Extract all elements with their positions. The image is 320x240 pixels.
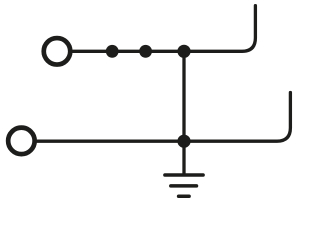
junction node (upper) bbox=[177, 45, 190, 58]
wire: vertical connector between upper and lower rails bbox=[182, 51, 185, 141]
ground bar 1 (top, widest) bbox=[165, 173, 203, 177]
contact dot 2 on upper wire bbox=[139, 45, 152, 58]
terminal circle (lower left) bbox=[8, 128, 35, 155]
ground bar 3 (bottom, shortest) bbox=[179, 195, 190, 199]
wire: ground stem bbox=[182, 141, 185, 175]
terminal circle (upper left) bbox=[44, 38, 71, 65]
wire: lower horizontal with right bend up bbox=[35, 93, 291, 142]
ground bar 2 (middle) bbox=[171, 184, 197, 188]
contact dot 1 on upper wire bbox=[106, 45, 119, 58]
junction node (lower) bbox=[177, 135, 190, 148]
wire: upper horizontal with right bend up bbox=[70, 6, 255, 52]
